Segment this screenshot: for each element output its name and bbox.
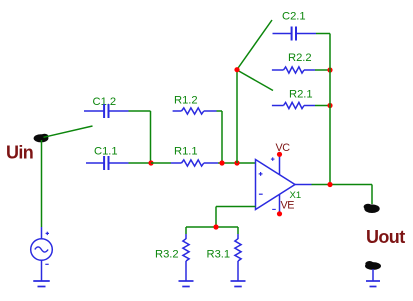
resistor R2.1: [272, 102, 315, 108]
svg-text:C1.1: C1.1: [94, 145, 118, 157]
junction node R2.2 on rail: [327, 67, 332, 72]
ground below R3.2: [179, 281, 194, 287]
junction node R3: [213, 224, 218, 229]
resistor R2.2 label: [288, 52, 312, 64]
resistor R1.2 label: [174, 95, 198, 107]
svg-text:R2.2: R2.2: [288, 52, 312, 64]
wire R2.2 to right rail: [315, 69, 330, 71]
wire op-amp minus input to corner: [216, 207, 256, 228]
capacitor C1.2 value label: [93, 96, 117, 108]
capacitor C1.1: [86, 156, 129, 170]
resistor R1.1 label: [174, 145, 198, 157]
wire diagonal from Uin node toward C1 capacitors: [44, 126, 93, 137]
ground below R3.1: [231, 281, 246, 287]
op-amp X1 designator label: [290, 190, 302, 201]
node label Uin: [6, 143, 33, 163]
pin VE supply of X1: [277, 194, 282, 216]
capacitor C2.1: [273, 27, 317, 41]
wire diagonal from feedback node to C2.1: [237, 20, 272, 70]
junction node R2.1 on rail: [327, 103, 332, 108]
source V1 (AC sine source): [31, 227, 53, 281]
svg-text:VC: VC: [276, 142, 291, 154]
wire from Uin node down to source V1: [41, 140, 43, 227]
wire junction to R1.1: [151, 162, 171, 164]
resistor R3.1: [235, 227, 241, 281]
junction node feedback top: [234, 67, 239, 72]
net label VC: [276, 142, 291, 154]
ground below Uout reference: [366, 269, 380, 287]
resistor R3.2: [183, 227, 189, 281]
svg-text:Uin: Uin: [6, 143, 33, 163]
wire C1.1 to junction: [129, 162, 153, 164]
resistor R1.2: [173, 108, 217, 114]
resistor R3.1 label: [207, 249, 231, 261]
wire R2.1 to right rail: [315, 105, 330, 107]
wire diagonal from feedback node to R2.1: [237, 70, 273, 91]
capacitor C1.2: [84, 104, 129, 118]
junction node feedback column on main wire: [234, 160, 239, 165]
pin VC supply of X1: [277, 152, 282, 175]
wire right rail vertical: [329, 34, 331, 185]
ground reference tie marker: [365, 261, 381, 270]
capacitor C2.1 label: [282, 11, 306, 23]
junction node R1.2 drop on main wire: [219, 160, 224, 165]
node Uout tie marker: [364, 204, 380, 213]
resistor R1.1: [171, 160, 218, 166]
svg-text:C2.1: C2.1: [282, 11, 306, 23]
svg-text:Uout: Uout: [366, 227, 405, 247]
svg-text:VE: VE: [281, 200, 295, 212]
resistor R3.2 label: [155, 249, 179, 261]
svg-text:R3.1: R3.1: [207, 249, 231, 261]
capacitor C1.1 value label: [94, 145, 118, 157]
wire C2.1 to right rail: [316, 33, 330, 35]
junction node at C1 outputs: [148, 160, 153, 165]
node Uin tie marker: [34, 134, 49, 143]
node label Uout: [366, 227, 405, 247]
svg-text:R1.2: R1.2: [174, 95, 198, 107]
wire R1.1 to op-amp inverting input: [218, 162, 256, 164]
junction node output on rail: [327, 182, 332, 187]
resistor R2.2: [272, 67, 315, 73]
wire output to Uout: [312, 185, 373, 205]
wire vertical feedback column: [236, 70, 238, 163]
ground below source V1: [33, 281, 50, 287]
svg-text:R2.1: R2.1: [289, 89, 313, 101]
svg-text:R1.1: R1.1: [174, 145, 198, 157]
wire op-amp output lead: [295, 184, 312, 186]
net label VE: [281, 200, 295, 212]
wire R1.2 right lead to corner and down to main wire: [217, 111, 223, 163]
svg-text:R3.2: R3.2: [155, 249, 179, 261]
wire R3 junction horizontal: [186, 226, 238, 228]
resistor R2.1 label: [289, 89, 313, 101]
wire C1.2 right lead to corner and down to input node: [129, 111, 151, 163]
op-amp X1: [256, 157, 296, 209]
